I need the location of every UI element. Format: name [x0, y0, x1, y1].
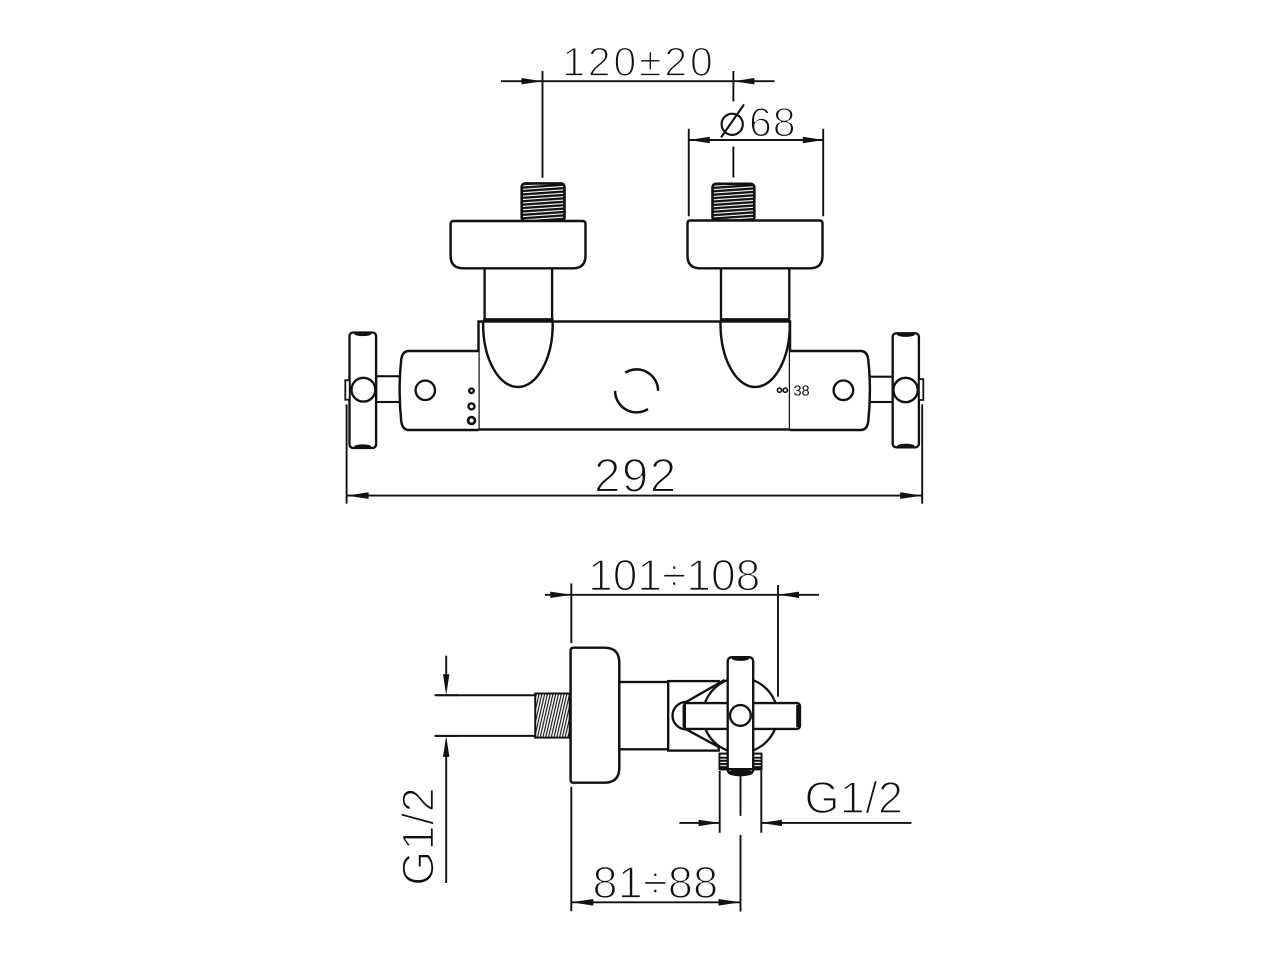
right dome	[721, 322, 790, 388]
G1/2 right dimension	[679, 822, 911, 824]
left handle bar	[350, 333, 377, 449]
main body	[479, 322, 791, 430]
wall supply pipe	[436, 695, 535, 736]
outlet nut	[719, 754, 761, 770]
left handle hub	[352, 378, 376, 402]
horizontal cross arm (side)	[684, 703, 800, 729]
right handle bar	[893, 333, 919, 447]
dim ø68 text	[721, 105, 744, 138]
left handle front arm tip	[345, 380, 349, 400]
left module circle	[416, 381, 435, 400]
right module	[790, 351, 870, 430]
cartridge housing (side)	[668, 681, 719, 751]
dim 292	[596, 459, 673, 493]
G1/2 left label (rotated)	[401, 790, 434, 884]
right handle hub	[893, 378, 917, 402]
left S-union nipple	[522, 183, 565, 221]
dim ø68 arrows	[689, 137, 710, 143]
left handle stem	[376, 376, 401, 402]
dim 81÷88	[594, 866, 716, 898]
right module circle	[834, 381, 854, 401]
left module	[400, 351, 479, 430]
dim 120±20 text	[565, 47, 711, 76]
side escutcheon	[571, 648, 620, 783]
38°C stop marker	[777, 388, 781, 392]
right inlet cylinder	[720, 269, 791, 319]
left escutcheon	[451, 221, 586, 268]
dim 120 arrows	[522, 78, 543, 84]
right handle front arm tip	[919, 379, 923, 400]
right handle stem	[870, 377, 893, 402]
hub circle (side)	[730, 705, 751, 726]
vertical cross arm bar (side)	[728, 657, 754, 774]
body cylinder (side)	[619, 682, 668, 749]
handle skirt cone (side)	[673, 680, 725, 748]
dim 120±20 line	[501, 71, 775, 178]
right S-union nipple	[713, 184, 755, 221]
G1/2 left dimension	[435, 656, 459, 883]
indicator dots	[469, 389, 474, 394]
dim 101÷108	[592, 559, 759, 590]
wall line extension below escutcheon	[570, 787, 572, 912]
outlet pipe lines	[720, 770, 762, 911]
temperature dial arcs	[625, 369, 658, 390]
handle base circle (side)	[703, 678, 778, 753]
left dome	[483, 322, 553, 387]
right escutcheon	[688, 221, 823, 269]
pipe thread	[535, 694, 570, 738]
dim ø68 line	[689, 129, 824, 217]
left inlet cylinder	[483, 269, 553, 319]
